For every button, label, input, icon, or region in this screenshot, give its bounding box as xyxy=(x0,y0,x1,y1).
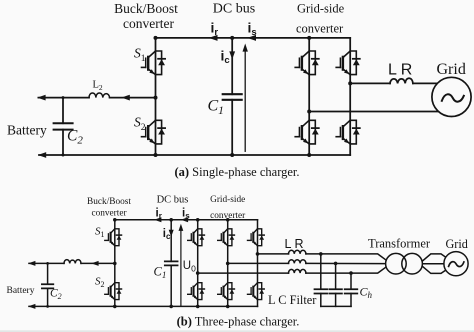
wire: LC filter tap 1 (b) xyxy=(320,254,322,307)
node: left grid leg midpoint (a) xyxy=(307,110,311,114)
wire: battery positive lead with inductor gap (a) xyxy=(38,97,155,99)
inductor L2 (a) xyxy=(89,93,110,98)
transistor: grid converter left bottom IGBT (a) xyxy=(295,120,319,144)
transistor: grid converter left top IGBT (a) xyxy=(295,51,319,75)
node: C1 bottom (a) xyxy=(230,153,234,157)
node: buck leg top (a) xyxy=(154,36,158,40)
arrow: current ir on DC bus (b) xyxy=(154,217,161,222)
svg-text:S1: S1 xyxy=(95,226,105,240)
node: leg2 top (b) xyxy=(226,218,230,222)
capacitor filter 2 (b) xyxy=(329,289,342,293)
wire: LC filter common bus (b) xyxy=(321,305,351,307)
wire: transformer to grid lower (b) xyxy=(422,266,449,273)
svg-text:C1: C1 xyxy=(154,265,167,281)
inductor battery filter (b) xyxy=(64,260,81,264)
svg-text:Buck/Boost: Buck/Boost xyxy=(87,197,131,207)
wire: DC bus negative rail (a) xyxy=(39,154,350,156)
transistor: leg2 top IGBT (b) xyxy=(218,229,235,246)
transformer (b) xyxy=(386,253,423,274)
node: filter tap 3 (b) xyxy=(349,271,353,275)
wire: battery positive lead with inductor gap (b) xyxy=(29,262,115,264)
svg-text:converter: converter xyxy=(210,211,246,221)
arrow: current is on DC bus (a) xyxy=(247,35,256,41)
capacitor C2 (b) xyxy=(42,263,53,306)
node: leg2 bottom (b) xyxy=(226,305,230,309)
svg-text:Grid: Grid xyxy=(437,61,466,78)
svg-text:ir: ir xyxy=(211,20,219,39)
node: C1 top (b) xyxy=(169,218,173,222)
inductor L grid filter (a) xyxy=(390,78,413,83)
node: leg1 top (b) xyxy=(196,218,200,222)
svg-text:ir: ir xyxy=(156,208,162,221)
svg-text:C2: C2 xyxy=(67,128,83,147)
wire: buck/boost phase leg (a) xyxy=(155,38,157,155)
node: leg1 phase tap (b) xyxy=(196,271,200,275)
svg-text:Battery: Battery xyxy=(7,286,35,296)
transistor: leg1 bottom IGBT (b) xyxy=(188,283,205,300)
svg-text:converter: converter xyxy=(91,209,127,219)
wire: phase 2 output (b) with inductor gap xyxy=(228,262,390,264)
node: buck midpoint (b) xyxy=(113,262,117,266)
svg-text:Grid-side: Grid-side xyxy=(210,195,245,205)
capacitor C1 (a) xyxy=(223,38,242,155)
arrow: capacitor current ic (b) xyxy=(169,230,174,237)
svg-text:L C Filter: L C Filter xyxy=(268,293,317,307)
wire: transformer to grid upper (b) xyxy=(422,254,449,261)
wire: buck/boost leg (b) xyxy=(114,220,116,307)
node: C1 top (a) xyxy=(230,36,234,40)
arrow: DC link voltage U0 (b) xyxy=(179,224,184,306)
source: Grid circle (a) xyxy=(432,77,471,116)
svg-text:Battery: Battery xyxy=(7,123,47,138)
capacitor filter 1 (b) xyxy=(315,289,328,293)
svg-text:(a) Single-phase charger.: (a) Single-phase charger. xyxy=(174,165,299,179)
transistor S1 (b) xyxy=(105,229,122,246)
arrow: capacitor current ic (a) xyxy=(229,51,235,59)
wire: DC bus positive rail (b) xyxy=(115,219,258,221)
svg-text:DC bus: DC bus xyxy=(213,2,255,17)
svg-text:Buck/Boost: Buck/Boost xyxy=(114,1,178,16)
wire: LC filter tap 2 (b) xyxy=(335,263,337,306)
source: Grid circle (b) xyxy=(444,252,468,276)
svg-text:S1: S1 xyxy=(134,46,146,65)
capacitor C1 (b) xyxy=(165,220,178,307)
svg-text:Transformer: Transformer xyxy=(368,236,431,250)
node: battery C2 top junction (a) xyxy=(62,96,65,99)
wire: grid converter leg 1 (b) xyxy=(197,220,199,307)
svg-text:Ch: Ch xyxy=(360,285,373,301)
node: left grid leg bottom (a) xyxy=(307,153,311,157)
svg-text:converter: converter xyxy=(123,16,174,31)
svg-text:(b) Three-phase charger.: (b) Three-phase charger. xyxy=(177,315,300,329)
node: filter tap 2 (b) xyxy=(334,262,338,266)
node: leg1 bottom (b) xyxy=(196,305,200,309)
scan edge artifact bottom xyxy=(0,330,474,332)
wire: LC filter tap 3 (b) xyxy=(350,273,352,306)
node: right grid leg midpoint (a) xyxy=(348,81,352,85)
wire: transformer to grid middle (b) xyxy=(423,263,448,265)
capacitor C2 (a) xyxy=(54,98,73,155)
svg-text:Grid: Grid xyxy=(446,237,468,251)
transistor S2 (b) xyxy=(105,283,122,300)
capacitor filter 3 (b) xyxy=(345,289,358,293)
wire: grid converter leg 3 (b) xyxy=(257,220,259,307)
transistor: leg3 top IGBT (b) xyxy=(248,229,265,246)
transistor: grid converter right top IGBT (a) xyxy=(336,51,360,75)
transistor: leg1 top IGBT (b) xyxy=(188,229,205,246)
wire: grid converter leg 2 (b) xyxy=(227,220,229,307)
node: C2 top junction (b) xyxy=(46,262,49,265)
wire: phase 1 output (b) with inductor gap xyxy=(258,254,387,261)
arrow: battery positive lead end (a) xyxy=(37,95,45,101)
svg-text:S2: S2 xyxy=(134,115,146,134)
svg-text:ic: ic xyxy=(221,47,230,66)
inductor phase 2 (b) xyxy=(289,260,306,264)
svg-text:DC bus: DC bus xyxy=(157,195,189,206)
svg-text:S2: S2 xyxy=(95,276,105,290)
transistor S1 (a) xyxy=(142,51,166,75)
arrow: battery negative lead end (a) xyxy=(38,152,46,158)
arrow: battery current direction (b) xyxy=(91,261,98,266)
node: left grid leg top (a) xyxy=(307,36,311,40)
node: buck leg bottom (b) xyxy=(113,305,117,309)
wire: DC bus negative rail (b) xyxy=(29,305,258,307)
arrow: battery positive lead end (b) xyxy=(28,261,35,266)
svg-text:is: is xyxy=(182,208,190,221)
transistor: grid converter right bottom IGBT (a) xyxy=(336,120,360,144)
svg-text:L R: L R xyxy=(285,237,304,251)
wire: phase output upper (a) with inductor gap xyxy=(350,82,445,84)
svg-text:Grid-side: Grid-side xyxy=(297,2,345,16)
node: filter tap 1 (b) xyxy=(319,252,323,256)
svg-text:C2: C2 xyxy=(50,288,62,302)
svg-text:converter: converter xyxy=(296,22,344,36)
svg-text:C1: C1 xyxy=(208,98,224,118)
node: C1 bottom (b) xyxy=(169,305,173,309)
arrow: current ir on DC bus (a) xyxy=(209,35,218,41)
node: buck leg bottom (a) xyxy=(154,153,158,157)
node: leg2 phase tap (b) xyxy=(226,262,230,266)
node: buck midpoint (a) xyxy=(154,96,158,100)
node: buck leg top (b) xyxy=(113,218,117,222)
arrow: battery current direction (a) xyxy=(121,95,129,101)
transistor: leg3 bottom IGBT (b) xyxy=(248,283,265,300)
arrow: DC link voltage (a) xyxy=(243,44,248,152)
transistor: leg2 bottom IGBT (b) xyxy=(218,283,235,300)
node: leg3 phase tap (b) xyxy=(256,252,260,256)
wire: grid-side converter right leg (a) xyxy=(349,38,351,155)
wire: DC bus positive rail (a) xyxy=(156,37,351,39)
wire: phase 3 output (b) with inductor gap xyxy=(198,267,387,274)
svg-text:L R: L R xyxy=(388,61,412,78)
svg-text:L2: L2 xyxy=(93,80,103,93)
arrow: current is on DC bus (b) xyxy=(181,217,188,222)
inductor phase 3 (b) xyxy=(289,269,306,273)
inductor phase 1 (b) xyxy=(289,250,306,254)
transistor S2 (a) xyxy=(142,120,166,144)
wire: grid-side converter left leg (a) xyxy=(308,38,310,155)
node: battery C2 bottom junction (a) xyxy=(62,154,65,157)
node: C2 bottom junction (b) xyxy=(46,305,49,308)
wire: phase output lower (a) xyxy=(309,111,445,113)
arrow: battery negative lead end (b) xyxy=(28,304,35,309)
svg-text:U0: U0 xyxy=(183,260,196,274)
svg-text:is: is xyxy=(248,20,257,39)
